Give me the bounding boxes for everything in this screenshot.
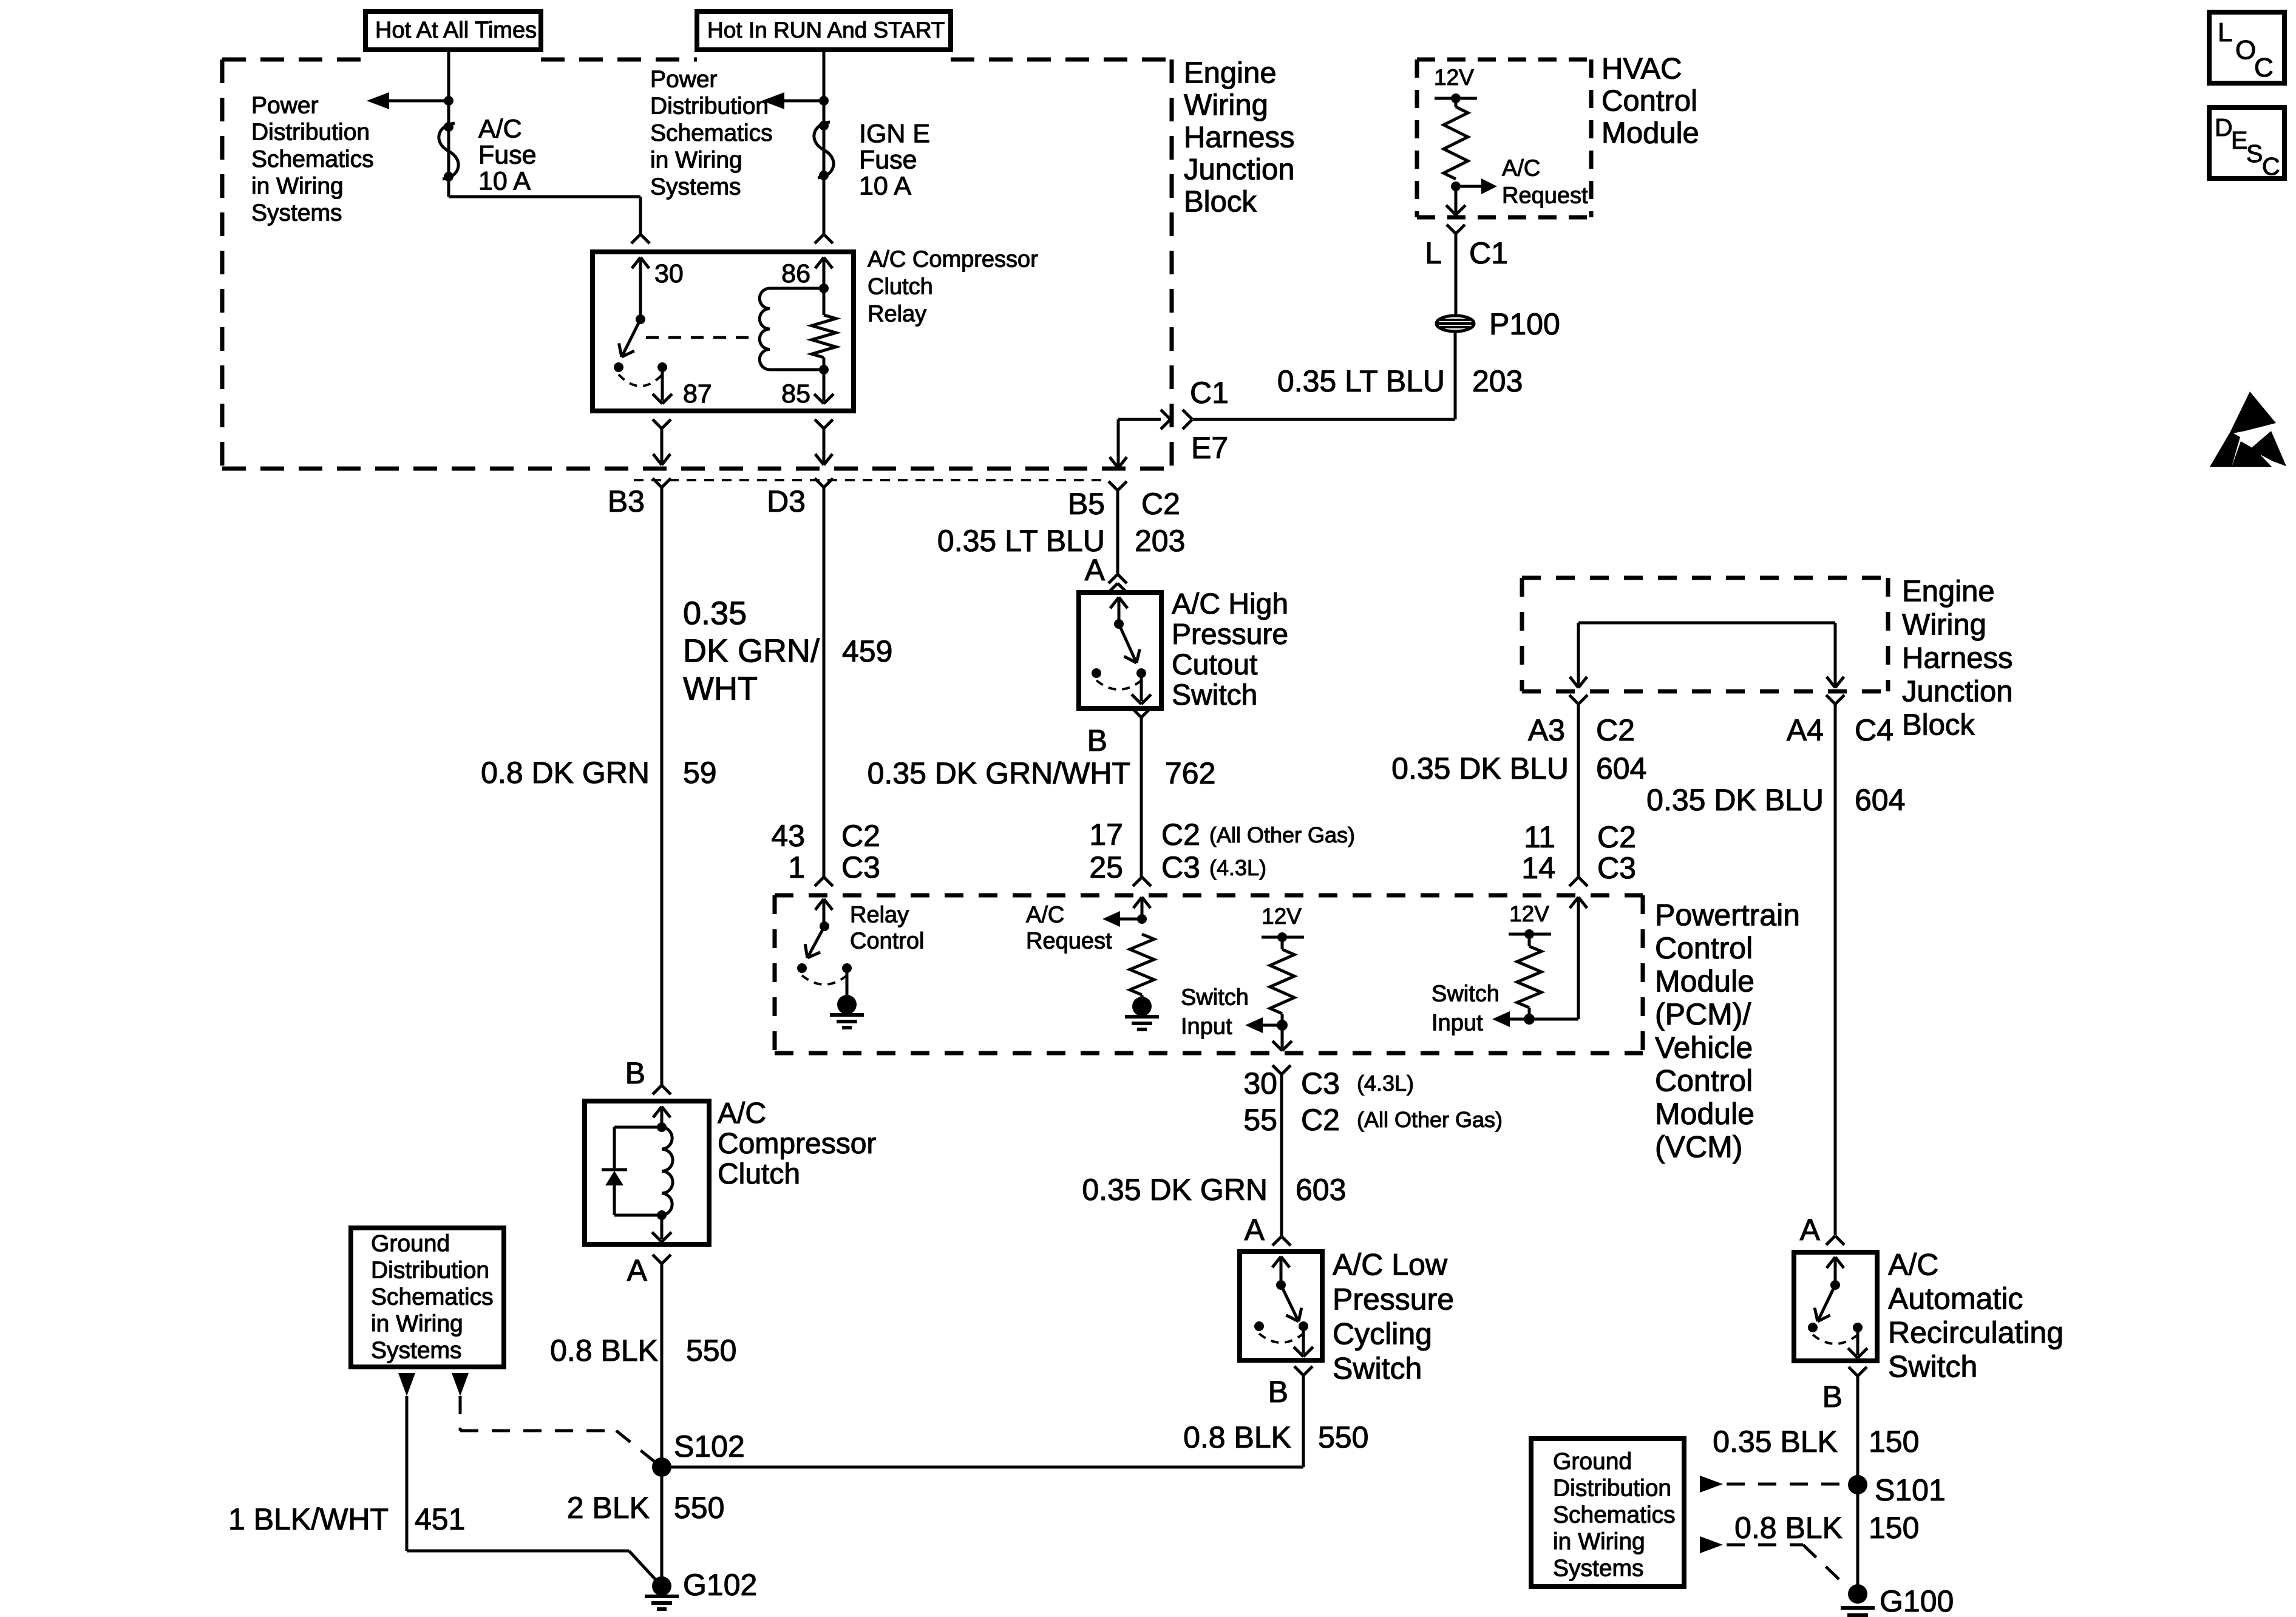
svg-text:A/C: A/C [478,114,522,143]
svg-text:Switch: Switch [1888,1349,1977,1383]
svg-text:Schematics: Schematics [1553,1502,1676,1528]
svg-text:C2: C2 [1596,713,1635,747]
svg-text:0.35 LT BLU: 0.35 LT BLU [1277,364,1445,398]
svg-text:S102: S102 [674,1429,745,1463]
svg-text:C2: C2 [841,819,880,853]
svg-text:Compressor: Compressor [718,1128,876,1160]
svg-text:25: 25 [1089,850,1123,884]
svg-text:59: 59 [683,756,717,790]
svg-text:Systems: Systems [1553,1555,1644,1581]
svg-text:Cycling: Cycling [1333,1317,1432,1351]
svg-text:203: 203 [1135,524,1185,558]
svg-text:12V: 12V [1434,65,1474,90]
svg-text:in Wiring: in Wiring [1553,1528,1645,1554]
svg-text:A: A [1800,1213,1821,1247]
svg-text:Systems: Systems [650,174,741,200]
svg-text:0.35 DK BLU: 0.35 DK BLU [1646,783,1824,817]
svg-text:Ground: Ground [1553,1448,1632,1474]
svg-text:Cutout: Cutout [1172,649,1257,681]
svg-text:HVAC: HVAC [1601,53,1682,86]
svg-text:11: 11 [1524,820,1555,854]
svg-text:Switch: Switch [1172,679,1257,711]
svg-text:Control: Control [1601,85,1697,118]
svg-text:Junction: Junction [1902,676,2013,708]
svg-text:0.35 DK GRN: 0.35 DK GRN [1082,1173,1268,1207]
svg-text:Systems: Systems [251,200,342,226]
svg-text:A: A [1085,553,1106,587]
svg-text:2 BLK: 2 BLK [567,1491,650,1525]
svg-text:P100: P100 [1489,307,1560,341]
svg-text:604: 604 [1596,751,1646,785]
svg-text:B5: B5 [1068,487,1105,521]
svg-text:150: 150 [1869,1425,1919,1459]
svg-text:Switch: Switch [1181,985,1249,1011]
svg-text:A/C: A/C [1026,903,1064,928]
svg-text:0.35 LT BLU: 0.35 LT BLU [937,524,1105,558]
svg-text:12V: 12V [1262,904,1302,929]
svg-text:Fuse: Fuse [478,140,537,169]
svg-text:C2: C2 [1141,487,1180,521]
svg-text:B3: B3 [608,484,645,518]
svg-text:0.8 BLK: 0.8 BLK [1183,1420,1291,1454]
svg-text:Power: Power [650,66,718,92]
svg-text:L: L [1425,236,1442,270]
svg-text:O: O [2235,35,2256,65]
svg-text:Fuse: Fuse [859,145,917,174]
svg-text:87: 87 [683,379,712,408]
svg-text:A/C: A/C [1888,1247,1938,1281]
svg-text:203: 203 [1472,364,1523,398]
svg-text:A: A [1245,1213,1265,1247]
svg-text:Module: Module [1601,117,1699,150]
svg-text:B: B [625,1056,645,1090]
svg-text:Relay: Relay [850,903,909,928]
svg-text:DK GRN/: DK GRN/ [683,632,820,669]
svg-text:A/C High: A/C High [1172,588,1288,620]
svg-text:Switch: Switch [1432,981,1500,1007]
svg-text:1 BLK/WHT: 1 BLK/WHT [228,1502,389,1536]
svg-text:0.35: 0.35 [683,595,747,631]
svg-text:A: A [627,1253,648,1287]
svg-text:10 A: 10 A [478,166,531,195]
svg-text:451: 451 [415,1502,465,1536]
svg-text:Module: Module [1655,1097,1754,1131]
svg-text:C3: C3 [1301,1066,1340,1100]
svg-text:C3: C3 [841,850,880,884]
svg-text:WHT: WHT [683,670,758,707]
svg-text:0.35 DK BLU: 0.35 DK BLU [1391,751,1569,785]
svg-text:Control: Control [1655,1064,1753,1098]
svg-text:Pressure: Pressure [1333,1282,1454,1316]
svg-text:L: L [2218,18,2232,47]
svg-text:C3: C3 [1161,850,1200,884]
svg-text:17: 17 [1089,818,1123,852]
svg-text:0.8 BLK: 0.8 BLK [550,1334,658,1368]
svg-text:30: 30 [1243,1066,1277,1100]
svg-text:Hot In RUN And START: Hot In RUN And START [707,18,945,42]
svg-text:Ground: Ground [371,1230,450,1256]
svg-text:C: C [2254,53,2274,83]
svg-text:IGN E: IGN E [859,119,930,148]
svg-text:C2: C2 [1161,818,1200,852]
svg-text:E: E [2231,126,2247,154]
svg-text:Schematics: Schematics [371,1284,494,1310]
svg-text:E7: E7 [1191,431,1228,465]
svg-text:C2: C2 [1301,1103,1340,1137]
svg-text:Control: Control [850,929,925,954]
svg-text:459: 459 [842,634,892,668]
svg-text:Switch: Switch [1333,1351,1422,1385]
svg-text:Wiring: Wiring [1902,609,1986,642]
svg-text:Distribution: Distribution [650,93,769,120]
svg-text:C: C [2262,152,2280,180]
svg-text:B: B [1268,1375,1288,1409]
svg-text:Junction: Junction [1184,154,1295,186]
svg-text:604: 604 [1855,783,1905,817]
svg-text:Powertrain: Powertrain [1655,898,1800,932]
svg-text:C3: C3 [1597,851,1636,885]
svg-text:Distribution: Distribution [1553,1475,1671,1501]
svg-text:A3: A3 [1528,713,1565,747]
svg-text:43: 43 [771,819,805,853]
svg-text:A/C Low: A/C Low [1333,1247,1448,1281]
svg-text:(4.3L): (4.3L) [1357,1071,1414,1096]
svg-text:S101: S101 [1875,1473,1946,1507]
svg-text:Engine: Engine [1184,57,1277,90]
svg-text:0.35 DK GRN/WHT: 0.35 DK GRN/WHT [868,756,1130,790]
svg-text:Harness: Harness [1902,642,2012,675]
svg-text:C4: C4 [1855,713,1894,747]
svg-text:C1: C1 [1190,376,1229,410]
svg-text:S: S [2246,140,2263,168]
svg-text:Recirculating: Recirculating [1888,1315,2063,1349]
svg-text:550: 550 [674,1491,724,1525]
svg-text:in Wiring: in Wiring [251,173,344,199]
svg-text:603: 603 [1296,1173,1346,1207]
svg-text:in Wiring: in Wiring [371,1310,463,1337]
svg-text:Automatic: Automatic [1888,1281,2023,1315]
svg-text:Systems: Systems [371,1337,462,1363]
svg-text:Vehicle: Vehicle [1655,1031,1753,1065]
svg-text:Relay: Relay [868,302,926,327]
svg-text:C2: C2 [1597,820,1636,854]
svg-text:Block: Block [1184,186,1257,219]
svg-text:Schematics: Schematics [251,146,374,172]
svg-text:in Wiring: in Wiring [650,147,742,173]
svg-text:(VCM): (VCM) [1655,1130,1742,1164]
svg-text:14: 14 [1521,851,1555,885]
svg-text:0.8 BLK: 0.8 BLK [1734,1511,1843,1545]
svg-text:A4: A4 [1787,713,1824,747]
svg-text:10 A: 10 A [859,171,911,200]
svg-text:Input: Input [1432,1011,1483,1036]
svg-text:Input: Input [1181,1014,1232,1040]
svg-text:86: 86 [781,259,810,288]
svg-text:550: 550 [686,1334,736,1368]
svg-text:C1: C1 [1469,236,1508,270]
svg-text:Request: Request [1502,183,1588,209]
svg-text:1: 1 [788,850,805,884]
svg-text:Clutch: Clutch [718,1158,800,1190]
svg-text:Harness: Harness [1184,121,1294,154]
svg-text:Power: Power [251,92,319,118]
svg-text:Schematics: Schematics [650,120,773,146]
svg-text:Module: Module [1655,964,1754,998]
svg-text:A/C Compressor: A/C Compressor [868,247,1038,273]
svg-text:Control: Control [1655,931,1753,965]
svg-text:(All Other Gas): (All Other Gas) [1209,822,1355,847]
svg-text:Block: Block [1902,709,1975,742]
svg-text:Wiring: Wiring [1184,89,1268,122]
svg-text:12V: 12V [1509,901,1549,926]
svg-text:150: 150 [1869,1511,1919,1545]
svg-text:550: 550 [1318,1420,1368,1454]
svg-text:Pressure: Pressure [1172,619,1288,651]
svg-text:(All Other Gas): (All Other Gas) [1357,1107,1503,1132]
svg-text:D: D [2215,114,2233,141]
svg-text:B: B [1087,724,1107,758]
svg-text:762: 762 [1165,756,1215,790]
svg-text:Engine: Engine [1902,575,1995,608]
svg-text:0.35 BLK: 0.35 BLK [1713,1425,1838,1459]
svg-text:Clutch: Clutch [868,274,933,300]
svg-text:A/C: A/C [1502,156,1540,181]
svg-text:Request: Request [1026,929,1112,954]
svg-text:G102: G102 [683,1568,757,1602]
svg-text:30: 30 [654,259,684,288]
svg-text:G100: G100 [1880,1584,1954,1617]
svg-text:(4.3L): (4.3L) [1209,855,1266,880]
svg-text:B: B [1822,1380,1843,1414]
svg-text:Hot At All Times: Hot At All Times [375,18,537,43]
svg-text:Distribution: Distribution [371,1257,489,1283]
svg-text:A/C: A/C [718,1097,766,1130]
svg-text:55: 55 [1243,1103,1277,1137]
svg-text:Distribution: Distribution [251,120,370,146]
svg-text:0.8 DK GRN: 0.8 DK GRN [481,756,650,790]
svg-text:D3: D3 [767,484,806,518]
svg-text:(PCM)/: (PCM)/ [1655,997,1751,1031]
svg-text:85: 85 [781,379,810,408]
